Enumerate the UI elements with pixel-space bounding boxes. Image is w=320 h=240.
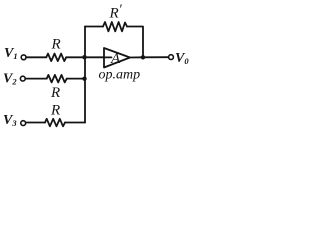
- svg-text:R: R: [50, 85, 60, 101]
- op-amp U1 triangle: [104, 48, 130, 68]
- wire: V1 resistor to summing node: [66, 56, 85, 58]
- wire: V2 lead from terminal to resistor: [25, 78, 46, 80]
- resistor R': [103, 22, 127, 31]
- wire: V2 resistor to bus: [67, 78, 85, 80]
- terminal: V3 input circle: [21, 121, 26, 126]
- wire: feedback top-left from bus corner to R': [85, 26, 103, 28]
- terminal: V0 output circle: [169, 55, 174, 60]
- node: output junction dot: [141, 55, 145, 59]
- resistor R2 (V2 input, value R): [47, 75, 67, 83]
- resistor R3 (V3 input, value R): [45, 119, 65, 127]
- terminal: V2 input circle: [20, 76, 25, 81]
- op-amp inverting input dash: [104, 56, 112, 58]
- svg-text:R: R: [51, 37, 61, 53]
- wire: V3 resistor to bus corner: [65, 122, 85, 124]
- wire: V3 lead from terminal to resistor: [26, 122, 45, 124]
- wire: V1 lead from terminal to resistor: [26, 56, 46, 58]
- svg-text:op.amp: op.amp: [99, 68, 141, 83]
- node: V2 junction dot: [82, 77, 86, 81]
- svg-text:A: A: [110, 51, 121, 67]
- resistor R1 (V1 input, value R): [46, 54, 66, 62]
- wire: summing node to op-amp input: [85, 56, 104, 58]
- wire: output node to terminal: [143, 56, 169, 58]
- wire: input bus vertical: [84, 27, 86, 123]
- wire: feedback top-right down to output node: [127, 27, 143, 58]
- node: summing junction dot: [82, 55, 86, 59]
- svg-text:R: R: [50, 103, 60, 119]
- terminal: V1 input circle: [21, 55, 26, 60]
- wire: op-amp output to node: [130, 56, 143, 58]
